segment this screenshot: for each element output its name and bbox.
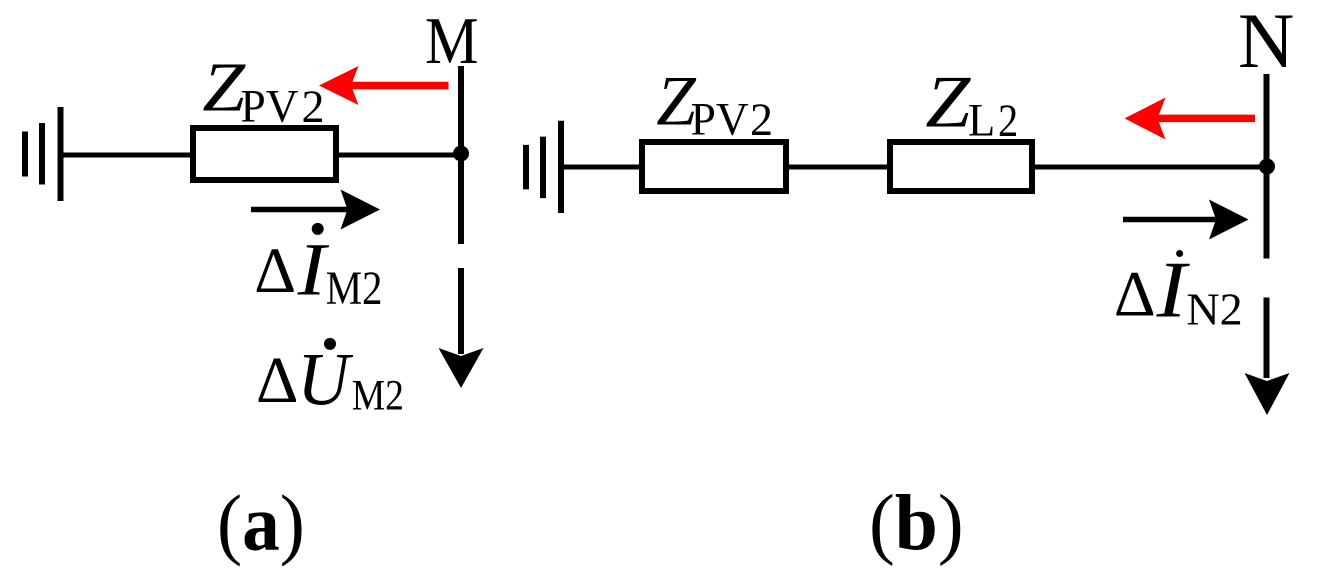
svg-text:I: I: [1155, 247, 1190, 335]
svg-text:PV: PV: [691, 94, 749, 146]
svg-text:M: M: [425, 4, 479, 78]
svg-text:2: 2: [998, 95, 1018, 147]
svg-text:U: U: [297, 338, 354, 421]
svg-text:Z: Z: [925, 62, 971, 144]
svg-text:M2: M2: [326, 262, 383, 315]
svg-text:(b): (b): [869, 480, 964, 567]
svg-text:N: N: [1238, 0, 1294, 84]
svg-text:N2: N2: [1186, 284, 1242, 335]
svg-text:Δ: Δ: [1114, 259, 1156, 331]
svg-text:Δ: Δ: [254, 235, 296, 307]
svg-text:PV: PV: [241, 81, 299, 133]
svg-text:2: 2: [302, 81, 325, 133]
svg-text:I: I: [296, 229, 329, 312]
svg-text:2: 2: [750, 94, 773, 146]
svg-text:Δ: Δ: [256, 344, 298, 417]
svg-text:M2: M2: [352, 373, 404, 420]
svg-text:(a): (a): [217, 481, 305, 568]
svg-text:L: L: [968, 95, 995, 147]
